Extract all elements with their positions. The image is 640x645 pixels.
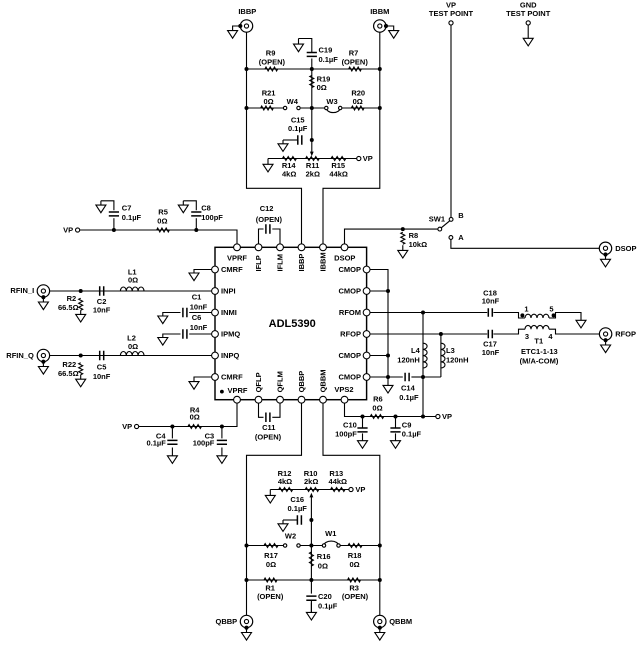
svg-text:VPRF: VPRF: [227, 253, 247, 262]
inductor L1: [120, 287, 144, 291]
svg-text:INPI: INPI: [221, 287, 236, 296]
svg-text:(OPEN): (OPEN): [256, 215, 283, 224]
wire GND test point stub: [527, 25, 529, 38]
wire W1 to R18: [340, 545, 379, 547]
junction C4: [170, 425, 174, 429]
capacitor C3: [217, 440, 227, 444]
wire CMOP1 to bus: [367, 270, 388, 292]
svg-text:10nF: 10nF: [190, 303, 208, 312]
resistor R21: [261, 106, 274, 110]
pin VPRF (top 1): [234, 244, 241, 251]
wire R16 column: [310, 546, 312, 581]
junction L branch/VP rail: [421, 415, 425, 419]
svg-text:INMI: INMI: [221, 308, 237, 317]
jumper W2: [283, 544, 286, 547]
svg-text:W3: W3: [326, 97, 337, 106]
pin IBBM (top 5): [320, 244, 327, 251]
resistor R7: [349, 67, 362, 71]
ground CMRF top: [189, 273, 199, 281]
wire C6 ground arm: [163, 334, 181, 338]
capacitor C12: [266, 224, 270, 234]
resistor R9: [265, 67, 278, 71]
svg-text:4kΩ: 4kΩ: [278, 477, 292, 486]
svg-text:RFOP: RFOP: [615, 330, 636, 339]
capacitor C7: [109, 212, 119, 216]
svg-text:0.1µF: 0.1µF: [288, 504, 308, 513]
junction W row left: [245, 544, 249, 548]
svg-text:C20: C20: [318, 592, 332, 601]
wire C1 ground arm: [163, 313, 181, 317]
wire C19 to ground: [299, 39, 312, 53]
svg-text:SW1: SW1: [429, 214, 445, 223]
wire C10 ground stub: [362, 433, 364, 440]
wire switch A to DSOP connector: [451, 240, 600, 249]
inductor L2: [120, 352, 144, 356]
junction CMOP3: [386, 354, 390, 358]
pin IPMQ (left 4): [212, 331, 219, 338]
svg-text:0.1µF: 0.1µF: [319, 55, 339, 64]
pin CMRF (left 1): [212, 266, 219, 273]
svg-text:C8: C8: [201, 203, 211, 212]
terminal VP (R15): [357, 156, 361, 160]
wire C20 stub2: [310, 600, 312, 612]
svg-text:B: B: [458, 211, 464, 220]
svg-text:QFLP: QFLP: [254, 372, 263, 392]
resistor R4: [188, 425, 202, 429]
svg-text:VPS2: VPS2: [334, 385, 353, 394]
wire RFOM row: [367, 312, 488, 314]
wire W3 to R20: [342, 107, 380, 109]
wire C9 ground stub: [395, 433, 397, 440]
wire VPS2 rail: [345, 400, 436, 417]
wire QBBP pin down-left: [247, 400, 302, 616]
svg-text:C6: C6: [192, 313, 202, 322]
svg-text:R22: R22: [62, 360, 76, 369]
junction CMOP2: [386, 289, 390, 293]
terminal VP TEST POINT: [449, 21, 453, 25]
svg-text:VP: VP: [446, 1, 456, 10]
connector QBBM: [374, 615, 386, 627]
svg-text:DSOP: DSOP: [334, 253, 355, 262]
svg-text:66.5Ω: 66.5Ω: [58, 303, 79, 312]
wire R14 ground stub: [267, 159, 269, 165]
wire CMRF bottom ground arm: [194, 377, 215, 382]
terminal VP (R13): [349, 487, 353, 491]
junction R21 row left: [245, 106, 249, 110]
junction C15: [310, 138, 314, 142]
wire C16 junction to W row: [310, 520, 312, 546]
svg-text:100pF: 100pF: [201, 213, 223, 222]
terminal VP (bottom-left): [135, 424, 139, 428]
svg-text:0Ω: 0Ω: [128, 342, 138, 351]
wire QBBM pin down-right: [323, 400, 380, 616]
wire C7 ground arm: [101, 201, 114, 210]
wire C18 to T1 primary: [493, 313, 525, 319]
svg-text:100pF: 100pF: [193, 439, 215, 448]
svg-text:IFLP: IFLP: [254, 255, 263, 271]
svg-text:A: A: [458, 233, 464, 242]
junction C19/R19: [310, 67, 314, 71]
svg-text:QBBP: QBBP: [297, 371, 306, 393]
svg-text:0Ω: 0Ω: [318, 562, 328, 571]
jumper W1: [324, 541, 339, 545]
wire R12 ground stub: [269, 490, 271, 496]
wire C12 bridge: [259, 229, 264, 247]
svg-text:VP: VP: [355, 485, 365, 494]
pin INPI (left 2): [212, 288, 219, 295]
pin VPS2 (bottom 6): [341, 396, 348, 403]
svg-text:0.1µF: 0.1µF: [122, 213, 142, 222]
svg-text:L4: L4: [411, 346, 421, 355]
svg-text:RFIN_Q: RFIN_Q: [6, 351, 34, 360]
wire C16 left lead: [283, 519, 297, 521]
switch SW1 common: [438, 227, 442, 231]
svg-text:(OPEN): (OPEN): [257, 592, 284, 601]
wire L3 bottom lead: [423, 376, 441, 378]
svg-text:120nH: 120nH: [397, 356, 420, 365]
wire IBBP connector drop: [246, 33, 248, 70]
junction R2: [79, 289, 83, 293]
svg-text:0Ω: 0Ω: [266, 560, 276, 569]
ground CMRF bottom: [189, 382, 199, 390]
resistor R2: [79, 298, 83, 310]
wire T1 primary to ground: [549, 313, 581, 321]
svg-text:QFLM: QFLM: [276, 371, 285, 392]
svg-text:R5: R5: [158, 207, 168, 216]
wire C1 lead: [189, 312, 215, 314]
svg-text:DSOP: DSOP: [615, 244, 636, 253]
svg-text:W1: W1: [325, 529, 336, 538]
svg-text:VP: VP: [363, 154, 373, 163]
svg-text:ETC1-1-13: ETC1-1-13: [521, 347, 558, 356]
svg-text:TEST POINT: TEST POINT: [506, 9, 551, 18]
resistor R13: [331, 488, 345, 492]
capacitor C11: [266, 413, 270, 423]
svg-text:CMOP: CMOP: [339, 265, 362, 274]
resistor R11: [306, 157, 320, 161]
ground R14 row: [263, 164, 273, 172]
junction IBBP/R9: [245, 67, 249, 71]
resistor R17: [264, 544, 278, 548]
junction W row right: [378, 544, 382, 548]
junction R1 row left: [245, 578, 249, 582]
svg-text:C12: C12: [260, 204, 274, 213]
svg-text:L3: L3: [446, 346, 455, 355]
jumper W4: [283, 106, 286, 109]
svg-text:C15: C15: [291, 115, 305, 124]
svg-text:10kΩ: 10kΩ: [409, 240, 428, 249]
terminal VP (top-left): [76, 228, 80, 232]
capacitor C1: [183, 308, 187, 318]
svg-text:C14: C14: [401, 383, 416, 392]
op-amp U1 ADL5390 chip body: [215, 247, 367, 399]
junction R21 row centre: [310, 106, 314, 110]
pin VPRF (bottom 1): [234, 396, 241, 403]
wire C11 bridge: [259, 400, 264, 418]
junction C10: [361, 415, 365, 419]
pin QFLM (bottom 3): [277, 396, 284, 403]
potentiometer wiper arrow R11: [310, 152, 314, 157]
resistor R1: [264, 578, 277, 582]
resistor R10: [305, 488, 319, 492]
svg-text:0Ω: 0Ω: [190, 413, 200, 422]
pin CMOP (right 2): [363, 288, 370, 295]
svg-text:0Ω: 0Ω: [128, 276, 138, 285]
pin RFOP (right 4): [363, 331, 370, 338]
terminal GND TEST POINT: [526, 21, 530, 25]
svg-text:INPQ: INPQ: [221, 351, 240, 360]
junction C14/L4: [421, 375, 425, 379]
svg-text:IBBP: IBBP: [238, 7, 256, 16]
svg-text:TEST POINT: TEST POINT: [429, 9, 474, 18]
svg-text:(OPEN): (OPEN): [342, 57, 369, 66]
switch SW1 blade: [441, 221, 449, 228]
svg-text:C7: C7: [122, 203, 132, 212]
svg-text:R16: R16: [317, 552, 331, 561]
capacitor C17: [488, 330, 492, 339]
pin CMOP (right 1): [363, 266, 370, 273]
svg-text:0.1µF: 0.1µF: [146, 439, 166, 448]
resistor R12: [279, 488, 293, 492]
resistor R20: [351, 106, 364, 110]
svg-text:C1: C1: [192, 292, 202, 301]
wire C15 junction to wiper: [311, 140, 313, 152]
svg-text:RFOM: RFOM: [339, 308, 361, 317]
ground R8: [398, 250, 408, 258]
connector RFOP: [599, 328, 611, 340]
junction R1 row right: [378, 578, 382, 582]
svg-text:0.1µF: 0.1µF: [399, 393, 419, 402]
wire R14/R11/R15 row: [268, 158, 357, 160]
svg-text:QBBM: QBBM: [389, 617, 412, 626]
wire CMOP3 lead: [367, 355, 388, 357]
svg-text:0Ω: 0Ω: [350, 560, 360, 569]
wire IBBM connector drop: [379, 33, 381, 70]
svg-text:IBBM: IBBM: [370, 7, 389, 16]
svg-text:CMRF: CMRF: [221, 265, 243, 274]
svg-text:R9: R9: [266, 49, 276, 58]
svg-text:RFIN_I: RFIN_I: [10, 286, 34, 295]
ground CMOP bus: [383, 385, 393, 393]
wire C8 up: [195, 218, 197, 230]
svg-text:2kΩ: 2kΩ: [306, 170, 320, 179]
svg-text:C10: C10: [343, 421, 357, 430]
wire DSOP pin to switch: [345, 229, 438, 247]
junction R22: [79, 354, 83, 358]
junction C9: [394, 415, 398, 419]
svg-text:R7: R7: [349, 49, 359, 58]
pin IFLM (top 3): [277, 244, 284, 251]
wire IBBP rail down: [247, 69, 302, 247]
pin INMI (left 3): [212, 309, 219, 316]
jumper W3: [326, 108, 340, 113]
wire CMRF top ground arm: [194, 270, 215, 274]
wire CMOP2 lead: [367, 290, 388, 292]
svg-text:VP: VP: [442, 412, 452, 421]
svg-text:GND: GND: [520, 1, 537, 10]
svg-text:W2: W2: [285, 531, 296, 540]
svg-text:0.1µF: 0.1µF: [288, 124, 308, 133]
wire R1/R3 row: [247, 579, 380, 581]
wire IBBM rail down: [323, 69, 380, 247]
inductor L4: [423, 343, 427, 368]
connector RFIN_Q: [37, 349, 49, 361]
wire R10 wiper: [310, 496, 312, 520]
svg-text:IFLM: IFLM: [276, 254, 285, 272]
wire C15 left lead: [283, 139, 298, 141]
svg-text:QBBM: QBBM: [319, 369, 328, 392]
wire T1 secondary to RFOP: [549, 329, 599, 334]
resistor R22: [79, 363, 83, 375]
capacitor C20: [306, 596, 316, 600]
svg-text:0Ω: 0Ω: [157, 217, 167, 226]
svg-text:0Ω: 0Ω: [264, 97, 274, 106]
connector QBBP: [240, 615, 252, 627]
pin CMOP (right 6): [363, 374, 370, 381]
svg-text:10nF: 10nF: [190, 323, 208, 332]
svg-text:CMOP: CMOP: [339, 373, 362, 382]
svg-text:(OPEN): (OPEN): [259, 57, 286, 66]
junction R21 row right: [378, 106, 382, 110]
wire L4 branch: [422, 313, 424, 378]
svg-text:W4: W4: [287, 97, 299, 106]
wire C3 ground stub: [221, 448, 223, 456]
ground T1 primary: [576, 320, 586, 328]
wire R2 stub: [80, 310, 82, 314]
svg-text:VPRF: VPRF: [228, 386, 248, 395]
capacitor C16: [297, 515, 301, 525]
svg-text:0.1µF: 0.1µF: [402, 429, 422, 438]
terminal VP (right): [436, 414, 440, 418]
resistor R3: [348, 578, 361, 582]
wire W4 to centre: [301, 107, 325, 109]
resistor R5: [157, 228, 170, 232]
svg-text:66.5Ω: 66.5Ω: [58, 369, 79, 378]
svg-text:(OPEN): (OPEN): [342, 592, 369, 601]
wire C17 to T1 secondary: [493, 329, 525, 334]
svg-text:C16: C16: [290, 495, 304, 504]
svg-text:QBBP: QBBP: [216, 617, 238, 626]
svg-text:0Ω: 0Ω: [317, 83, 327, 92]
capacitor C14: [405, 373, 409, 382]
junction C3: [220, 425, 224, 429]
svg-text:10nF: 10nF: [482, 348, 500, 357]
svg-text:C5: C5: [97, 363, 107, 372]
pin IBBP (top 4): [298, 244, 305, 251]
svg-text:10nF: 10nF: [482, 297, 500, 306]
capacitor C6: [183, 329, 187, 339]
svg-text:0.1µF: 0.1µF: [318, 602, 338, 611]
pin INPQ (left 5): [212, 352, 219, 359]
wire R22 stub: [80, 375, 82, 380]
wire R12/R10/R13 row: [270, 489, 349, 491]
resistor R16: [309, 552, 313, 566]
wire C14 to L junction: [411, 376, 423, 378]
wire RFIN_I row: [50, 290, 215, 292]
wire VP rail to VPRF pin: [80, 230, 237, 247]
wire C3 down: [221, 427, 223, 439]
pin QBBP (bottom 4): [298, 396, 305, 403]
pin CMOP (right 5): [363, 352, 370, 359]
resistor R19: [310, 76, 314, 88]
connector IBBP: [240, 20, 252, 32]
svg-text:1: 1: [524, 304, 528, 313]
pin CMRF (left 6): [212, 374, 219, 381]
wire CMOP bus: [387, 291, 389, 377]
wire C19 stem: [311, 59, 313, 70]
wire RFOP row: [367, 333, 488, 335]
wire C4 down: [171, 427, 173, 439]
junction RFOP/L3: [439, 332, 443, 336]
svg-text:RFOP: RFOP: [340, 330, 361, 339]
capacitor C4: [167, 440, 177, 444]
wire C6 lead: [189, 333, 215, 335]
wire W2 to centre: [300, 545, 322, 547]
wire bus ground stub: [387, 377, 389, 385]
junction CMOP4: [386, 375, 390, 379]
wire R9/R7 row: [247, 68, 380, 70]
svg-text:(OPEN): (OPEN): [255, 433, 282, 442]
wire C10 down: [362, 417, 364, 428]
pin-1 dot: [220, 390, 224, 394]
pin IFLP (top 2): [255, 244, 262, 251]
svg-text:10nF: 10nF: [93, 372, 111, 381]
pin DSOP (top 6): [341, 244, 348, 251]
capacitor C5: [100, 351, 104, 361]
capacitor C2: [100, 286, 104, 296]
junction C7: [112, 228, 116, 232]
svg-text:IPMQ: IPMQ: [221, 330, 240, 339]
connector IBBM: [374, 20, 386, 32]
resistor R6: [370, 415, 384, 419]
resistor R14: [282, 157, 296, 161]
svg-text:IBBP: IBBP: [297, 254, 306, 272]
svg-text:5: 5: [549, 304, 553, 313]
wire R8 ground stub: [402, 245, 404, 250]
svg-text:CMRF: CMRF: [221, 373, 243, 382]
switch SW1 pole B: [449, 218, 453, 222]
svg-text:44kΩ: 44kΩ: [329, 477, 348, 486]
svg-text:R17: R17: [264, 551, 278, 560]
svg-text:VP: VP: [63, 226, 73, 235]
pin QBBM (bottom 5): [320, 396, 327, 403]
transformer T1 primary: [525, 314, 549, 318]
svg-text:R18: R18: [348, 551, 362, 560]
junction R1 row centre: [309, 578, 313, 582]
switch SW1 pole A: [449, 236, 453, 240]
connector RFIN_I: [37, 285, 49, 297]
junction R8: [401, 227, 405, 231]
svg-text:(M/A-COM): (M/A-COM): [520, 356, 559, 365]
svg-text:3: 3: [525, 332, 529, 341]
resistor R8: [401, 232, 405, 244]
capacitor C15: [298, 135, 302, 145]
wire R21/W3/R20 row left: [247, 107, 284, 109]
svg-text:C9: C9: [402, 421, 412, 430]
capacitor C18: [488, 308, 492, 317]
wire C20 down: [310, 580, 312, 594]
inductor L3: [441, 343, 445, 368]
wire R19 column: [311, 69, 313, 108]
svg-text:44kΩ: 44kΩ: [329, 170, 348, 179]
resistor R18: [348, 544, 362, 548]
wire W row left: [247, 545, 284, 547]
wire RFIN_Q row: [50, 355, 215, 357]
svg-text:C19: C19: [319, 45, 333, 54]
svg-text:100pF: 100pF: [335, 429, 357, 438]
wire C7 up: [113, 218, 115, 230]
connector DSOP: [599, 242, 611, 254]
